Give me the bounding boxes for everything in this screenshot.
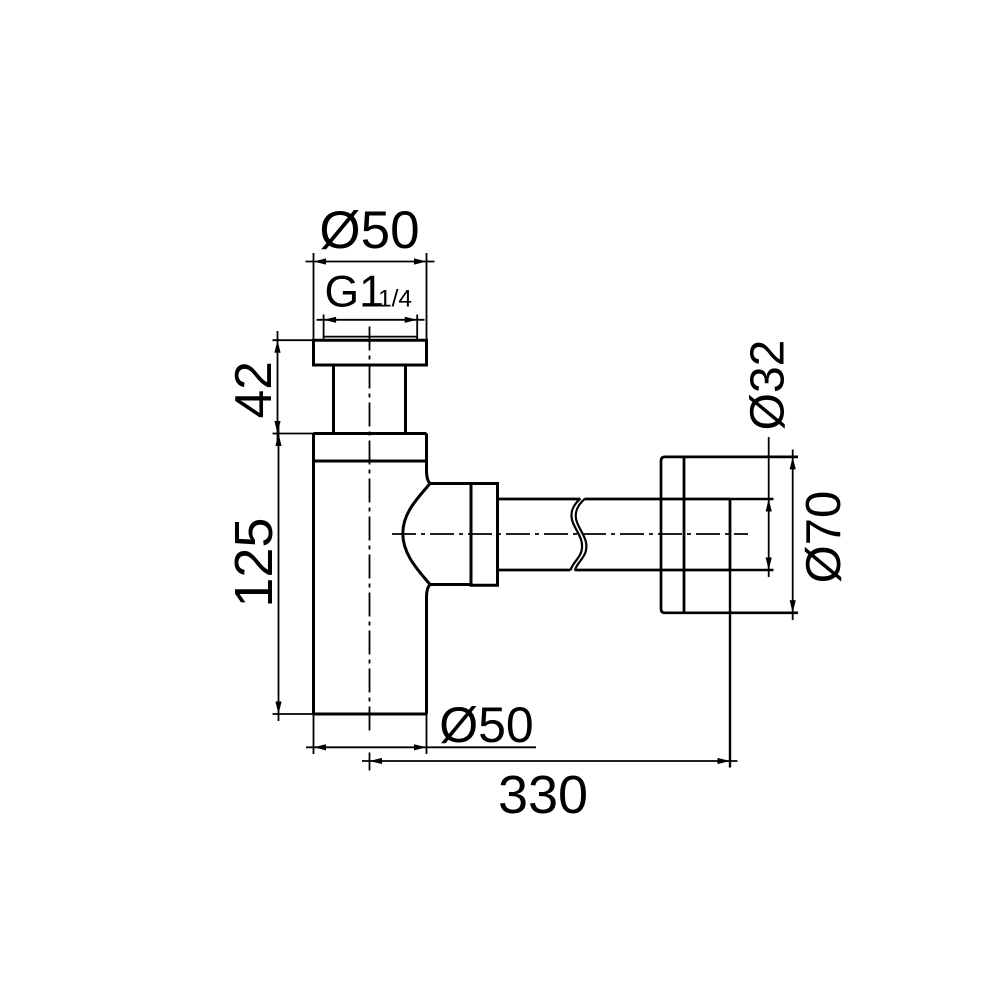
ext lines bottom dia50 xyxy=(314,714,427,754)
pipe bottom extension (dia32) xyxy=(730,569,774,571)
outlet bell bottom fillet xyxy=(427,585,431,598)
svg-text:330: 330 xyxy=(498,765,588,825)
ext lines top dia50 xyxy=(314,253,427,340)
ext line 330 right xyxy=(729,570,731,768)
svg-text:Ø50: Ø50 xyxy=(439,697,534,753)
arrows top dia50 xyxy=(314,258,427,264)
ext line 42 top xyxy=(273,339,314,341)
dim line G1 xyxy=(317,319,425,321)
pipe top extension (dia32) xyxy=(730,498,774,500)
pipe top line right of break xyxy=(585,498,731,501)
pipe bottom line left of break xyxy=(498,569,571,572)
svg-text:G1: G1 xyxy=(325,268,384,317)
arrows dia70 xyxy=(790,457,796,613)
body left edge xyxy=(312,434,315,715)
centerline segment at 330 dim xyxy=(369,753,371,771)
dim line 330 xyxy=(362,760,738,762)
dim line 42 xyxy=(277,331,279,441)
outlet collar nut xyxy=(471,484,498,586)
wall flange (escutcheon) rounded left xyxy=(661,457,798,613)
ext lines G1 xyxy=(324,315,418,341)
arrows bottom dia50 xyxy=(314,744,427,750)
outlet bell bottom edge xyxy=(430,583,471,586)
body right edge lower xyxy=(425,598,428,715)
break wavy line 1 xyxy=(571,499,583,571)
svg-text:Ø70: Ø70 xyxy=(797,491,851,584)
ext line 125 bottom xyxy=(273,713,314,715)
thread tail top line xyxy=(324,336,418,338)
top flange (inlet nut) xyxy=(314,340,427,365)
dim line dia32 xyxy=(768,437,770,577)
body right edge upper xyxy=(425,434,428,471)
body top nut line xyxy=(314,432,427,435)
break wavy line 2 xyxy=(575,499,587,571)
dim line dia70 xyxy=(792,450,794,621)
dim line top dia50 xyxy=(306,261,435,263)
wall flange inner vertical xyxy=(683,457,686,613)
arrows 42 xyxy=(274,340,280,433)
outlet bell curve xyxy=(403,484,430,585)
svg-text:125: 125 xyxy=(224,518,284,608)
svg-text:1/4: 1/4 xyxy=(378,286,412,313)
neck (threaded pipe) xyxy=(334,365,406,434)
dim line bottom dia50 xyxy=(306,746,536,748)
arrows dia32 xyxy=(766,499,772,570)
pipe bottom line right of break xyxy=(576,569,731,572)
arrows 125 xyxy=(275,434,281,715)
outlet bell top fillet xyxy=(427,471,431,484)
dim line 125 xyxy=(278,426,280,721)
pipe top line left of break xyxy=(498,498,581,501)
svg-text:Ø50: Ø50 xyxy=(319,201,419,260)
body bottom line xyxy=(314,713,427,716)
pipe end vertical xyxy=(729,499,732,570)
svg-text:42: 42 xyxy=(224,361,282,418)
arrows 330 xyxy=(370,758,731,764)
ext line 42/125 shared xyxy=(273,433,314,435)
outlet bell top edge xyxy=(430,482,471,485)
svg-text:Ø32: Ø32 xyxy=(742,340,795,431)
body vertical centerline xyxy=(369,327,371,732)
arrows G1 xyxy=(324,317,418,323)
body nut bottom line xyxy=(314,460,427,463)
pipe horizontal centerline xyxy=(392,533,748,535)
